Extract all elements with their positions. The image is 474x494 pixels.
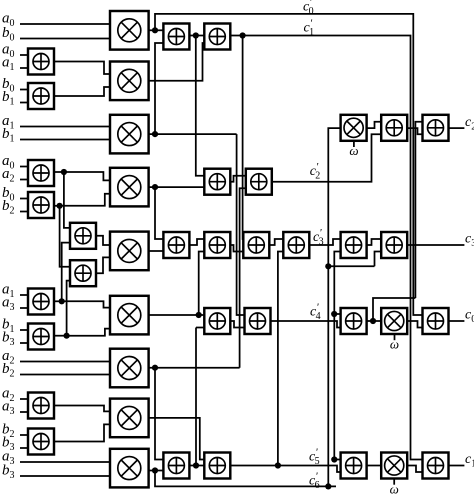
wire A10 out to M5: [96, 257, 110, 273]
wire node N3 down to A17: [242, 36, 245, 240]
wire P3 lane down to A20: [237, 134, 245, 315]
wire b3 to A8: [20, 447, 28, 449]
svg-text:ω: ω: [390, 482, 399, 494]
wire a1 to M3: [20, 126, 110, 128]
wire M6 out to A19: [149, 314, 205, 316]
wire A13 out to A14: [230, 176, 246, 182]
node R (a1+a3): [59, 298, 65, 304]
node P (a0+a2): [61, 169, 67, 175]
node N13: [193, 462, 199, 468]
wire a0 to A1: [20, 54, 28, 56]
wire omega stem (c1 row): [393, 479, 395, 485]
wire a0 to M1: [20, 23, 110, 25]
node N6 (P6): [196, 312, 202, 318]
node N14 (c0 row upper): [331, 311, 337, 317]
wire U3 out to A30: [407, 466, 422, 473]
adder A22 (c5' chain 2): [204, 453, 230, 479]
multiplier M6 ((a1+a3)(b1+b3)): [110, 296, 149, 335]
multiplier U3 (omega, c1 row): [381, 453, 407, 479]
wire A27 out to U2: [367, 320, 382, 322]
wire a2 to M7: [20, 361, 110, 363]
wire a3 to M9: [20, 461, 110, 463]
wire M7 out right: [149, 367, 240, 369]
adder A14 (c2' chain 2): [246, 169, 272, 195]
wire b2 to A8: [20, 434, 28, 436]
wire node P down to A9: [64, 172, 70, 228]
node N2: [193, 32, 199, 38]
node N3 (c1'): [240, 32, 246, 38]
wire c6' branch horizontal: [328, 265, 374, 267]
node N9 (P9): [152, 467, 158, 473]
wire M4 out to A13: [149, 186, 205, 188]
wire M6 lane up to A16: [199, 252, 205, 316]
wire A6 out to node: [54, 335, 67, 337]
wire c1 out: [449, 465, 465, 467]
adder A28 (c0 row): [423, 308, 449, 334]
wire b3 to A6: [20, 342, 28, 344]
multiplier M7 (a2*b2): [110, 349, 149, 388]
wire b1 to A2: [20, 102, 28, 104]
adder A2 (b0+b1): [28, 83, 54, 109]
wire node S up to A10: [67, 281, 70, 336]
wire omega stem (c2 row): [353, 141, 355, 147]
node N8 (P7): [152, 365, 158, 371]
wire branch up to A26: [375, 252, 382, 267]
adder A21 (c5' chain 1): [163, 453, 189, 479]
wire A23 out to A24: [407, 128, 422, 134]
wire node S to M6: [67, 329, 110, 336]
wire A3 out to node: [54, 171, 64, 173]
wire A9 out to M5: [96, 236, 110, 245]
wire P4 lane down to A15: [155, 187, 163, 239]
adder A25 (c3 row): [341, 232, 367, 258]
wire A7 out to M8: [54, 406, 110, 412]
node N16 (hook): [370, 318, 376, 324]
adder A12 (c1' chain 2): [204, 24, 230, 50]
wire A8 out to M8: [54, 424, 110, 441]
adder A17 (c3' chain 3): [243, 232, 269, 258]
wire A17 out to A18: [269, 239, 283, 245]
wire N14 to A27: [334, 313, 340, 315]
wire omega stem (c0 row): [394, 335, 396, 341]
adder A8 (b2+b3): [28, 429, 54, 455]
wire a3 to A7: [20, 411, 28, 413]
adder A23 (c2 row): [381, 115, 407, 141]
wire U2 out to A28: [407, 321, 422, 328]
wire N7 lane to A19 lower: [196, 327, 204, 329]
svg-text:ω: ω: [349, 143, 358, 158]
wire c3 out: [407, 244, 464, 246]
wire hook up: [373, 298, 415, 321]
node N12 (c6' branch): [325, 263, 331, 269]
wire c1' long: [230, 36, 422, 460]
wire a2 to A3: [20, 179, 28, 181]
wire A1 out to M2: [54, 62, 110, 75]
wire M2 out to A12: [149, 43, 205, 81]
adder A13 (c2' chain 1): [204, 169, 230, 195]
node Q (b0+b2): [57, 203, 63, 209]
node N5 (P4): [152, 184, 158, 190]
wire node Q to M4: [60, 194, 110, 206]
wire c3' long: [309, 239, 340, 245]
wire b2 to A4: [20, 211, 28, 213]
wire U1 out to A23: [367, 122, 382, 128]
multiplier M4 ((a0+a2)(b0+b2)): [110, 168, 149, 207]
wire P7 lane down to A21: [155, 368, 163, 460]
wire c5' long: [230, 466, 340, 473]
multiplier U2 (omega, c0 row): [381, 308, 407, 334]
adder A26 (c3 row): [381, 232, 407, 258]
multiplier M3 (a1*b1): [110, 115, 149, 154]
wire hook lane up to A24: [415, 122, 422, 298]
wire b1 to M3: [20, 139, 110, 141]
node N11 (c6' junction): [325, 483, 331, 489]
multiplier M8 ((a2+a3)(b2+b3)): [110, 399, 149, 438]
wire c6' long: [155, 471, 336, 487]
wire c0' long: [155, 14, 423, 315]
wire M1 out to A11: [149, 29, 164, 31]
wire b0 to A4: [20, 198, 28, 200]
adder A18 (c3' chain 4): [283, 232, 309, 258]
wire a1 to A5: [20, 294, 28, 296]
wire b0 to M1: [20, 38, 110, 40]
wire a0 to A3: [20, 166, 28, 168]
wire M5 out to A15: [149, 250, 164, 252]
wire A19 out to A20: [230, 321, 244, 328]
node N15 (c1 row upper): [331, 456, 337, 462]
wire lane down (c0/c1 shared): [334, 266, 340, 459]
wire c5' lane up to A18: [278, 252, 283, 466]
wire M3 up to A11: [155, 43, 163, 134]
multiplier M5 (middle product): [110, 232, 149, 271]
wire c4' long: [271, 321, 341, 328]
node S (b1+b3): [64, 333, 70, 339]
wire lane down to node N13: [195, 328, 197, 466]
wire c2 out: [449, 127, 465, 129]
wire node R to M6: [62, 301, 110, 307]
wire a1 to A1: [20, 67, 28, 69]
wire c2' long: [272, 134, 381, 181]
wire A29 out to U3: [367, 465, 382, 467]
adder A10 ((b0+b2)+(b1+b3)): [70, 260, 96, 286]
multiplier M1 (a0*b0): [110, 11, 149, 50]
multiplier M2 ((a0+a1)(b0+b1)): [110, 62, 149, 101]
wire M8 out to A22: [149, 418, 205, 460]
wire node N2 down to A13: [196, 36, 205, 176]
wire a2 to A7: [20, 398, 28, 400]
wire b1 to A6: [20, 329, 28, 331]
adder A19 (c4' chain 1): [204, 308, 230, 334]
wire A5 out to node: [54, 300, 62, 302]
multiplier M9 (a3*b3): [110, 449, 149, 488]
adder A4 (b0+b2): [28, 192, 54, 218]
wire A16 out to A17: [230, 245, 243, 252]
adder A11 (c1' chain 1): [163, 24, 189, 50]
wire M7 lane up to A14: [240, 188, 246, 368]
adder A1 (a0+a1): [28, 49, 54, 75]
wire branch up to A25: [334, 252, 340, 267]
wire c0 out: [449, 320, 465, 322]
wire A15 out to A16: [189, 239, 204, 245]
adder A3 (a0+a2): [28, 160, 54, 186]
wire c6' lane up to U1: [328, 128, 340, 486]
adder A16 (c3' chain 2): [204, 232, 230, 258]
svg-text:ω: ω: [390, 337, 399, 352]
adder A5 (a1+a3): [28, 289, 54, 315]
wire M9 out to A21: [149, 470, 164, 472]
adder A7 (a2+a3): [28, 393, 54, 419]
wire node Q down to A10: [60, 206, 70, 267]
node N1 (P1): [152, 27, 158, 33]
wire M3 out right: [149, 133, 237, 135]
wire b2 to M7: [20, 374, 110, 376]
adder A15 (c3' chain 1): [163, 232, 189, 258]
wire A2 out to M2: [54, 87, 110, 96]
wire b0 to A2: [20, 89, 28, 91]
multiplier U1 (omega, c2 row): [341, 115, 367, 141]
node N4 (P3): [152, 131, 158, 137]
node N10 (c5' branch): [275, 462, 281, 468]
wire a3 to A5: [20, 307, 28, 309]
adder A6 (b1+b3): [28, 324, 54, 350]
wire A4 out to node: [54, 205, 60, 207]
wire node P to M4: [64, 172, 110, 180]
adder A24 (c2 row): [423, 115, 449, 141]
adder A30 (c1 row): [423, 453, 449, 479]
adder A20 (c4' chain 2): [245, 308, 271, 334]
wire b3 to M9: [20, 475, 110, 477]
adder A27 (c0 row): [341, 308, 367, 334]
adder A9 ((a0+a2)+(a1+a3)): [70, 223, 96, 249]
wire A11 out to A12: [189, 35, 204, 37]
wire node R up to A9: [62, 243, 70, 302]
wire A25 out to A26: [367, 239, 382, 245]
wire A21 out to A22: [189, 465, 204, 467]
adder A29 (c1 row): [341, 453, 367, 479]
